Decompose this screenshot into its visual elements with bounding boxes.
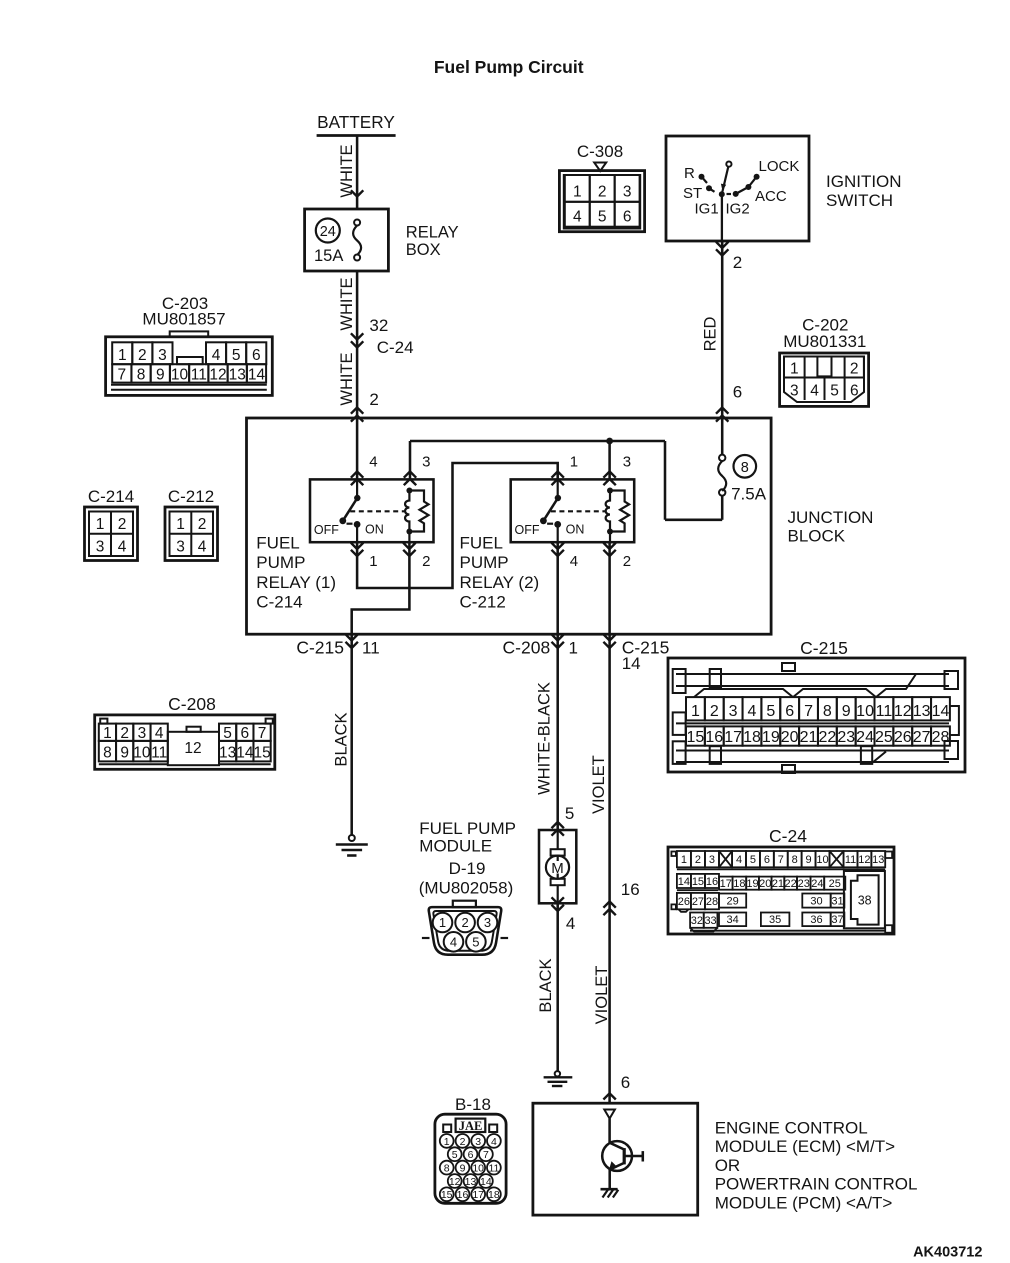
svg-text:3: 3: [422, 454, 430, 471]
svg-text:25: 25: [875, 729, 893, 746]
svg-text:IG1: IG1: [695, 201, 719, 218]
svg-text:14: 14: [622, 654, 641, 673]
svg-text:15A: 15A: [314, 247, 343, 265]
svg-text:12: 12: [858, 854, 870, 866]
svg-text:OR: OR: [715, 1156, 741, 1175]
svg-text:ACC: ACC: [755, 188, 787, 205]
svg-text:14: 14: [248, 366, 266, 383]
svg-text:2: 2: [695, 854, 701, 866]
svg-text:14: 14: [236, 745, 254, 762]
svg-text:C-212: C-212: [168, 487, 214, 506]
svg-text:2: 2: [120, 725, 129, 742]
svg-text:11: 11: [845, 854, 856, 866]
svg-text:11: 11: [191, 366, 207, 383]
svg-text:SWITCH: SWITCH: [826, 191, 893, 210]
svg-text:5: 5: [232, 347, 241, 364]
svg-text:2: 2: [138, 347, 147, 364]
svg-text:4: 4: [570, 553, 578, 570]
svg-text:3: 3: [475, 1136, 481, 1148]
svg-text:8: 8: [137, 366, 146, 383]
svg-text:RELAY: RELAY: [406, 223, 459, 241]
svg-text:26: 26: [894, 729, 912, 746]
svg-text:JAE: JAE: [459, 1119, 483, 1133]
svg-text:3: 3: [138, 725, 147, 742]
svg-text:2: 2: [733, 253, 742, 272]
svg-text:10: 10: [856, 703, 874, 720]
svg-text:14: 14: [480, 1176, 492, 1188]
svg-text:25: 25: [829, 878, 841, 890]
svg-text:23: 23: [837, 729, 855, 746]
svg-text:31: 31: [831, 895, 843, 907]
svg-text:8: 8: [792, 854, 798, 866]
svg-text:C-212: C-212: [460, 592, 506, 611]
svg-text:BLACK: BLACK: [537, 958, 555, 1012]
svg-text:32: 32: [691, 915, 703, 927]
svg-text:RED: RED: [702, 317, 720, 352]
svg-text:7: 7: [258, 725, 267, 742]
svg-text:18: 18: [733, 878, 745, 890]
svg-text:6: 6: [241, 725, 250, 742]
svg-text:16: 16: [621, 880, 640, 899]
svg-text:16: 16: [457, 1189, 469, 1201]
svg-text:(MU802058): (MU802058): [419, 879, 514, 898]
svg-text:3: 3: [96, 539, 105, 556]
svg-text:27: 27: [913, 729, 931, 746]
svg-text:7.5A: 7.5A: [731, 485, 767, 504]
svg-text:OFF: OFF: [515, 523, 540, 537]
svg-text:12: 12: [894, 703, 912, 720]
svg-text:22: 22: [818, 729, 836, 746]
svg-text:2: 2: [461, 915, 468, 930]
svg-text:15: 15: [441, 1189, 453, 1201]
svg-text:OFF: OFF: [314, 523, 339, 537]
svg-text:1: 1: [681, 854, 687, 866]
svg-text:4: 4: [810, 383, 819, 400]
svg-text:11: 11: [151, 745, 167, 762]
svg-text:10: 10: [171, 366, 189, 383]
svg-text:3: 3: [709, 854, 715, 866]
svg-text:4: 4: [491, 1136, 497, 1148]
svg-text:33: 33: [704, 915, 716, 927]
svg-text:3: 3: [623, 184, 632, 201]
svg-text:13: 13: [219, 745, 236, 762]
svg-text:2: 2: [422, 553, 430, 570]
svg-text:15: 15: [687, 729, 705, 746]
svg-text:12: 12: [209, 366, 226, 383]
svg-text:1: 1: [570, 454, 578, 471]
svg-text:5: 5: [598, 209, 607, 226]
svg-text:5: 5: [830, 383, 839, 400]
svg-text:1: 1: [439, 915, 446, 930]
svg-text:2: 2: [710, 703, 719, 720]
svg-text:12: 12: [184, 740, 201, 757]
svg-text:WHITE: WHITE: [338, 352, 356, 405]
svg-text:32: 32: [369, 316, 388, 335]
svg-text:MU801857: MU801857: [142, 310, 225, 329]
svg-text:17: 17: [724, 729, 742, 746]
svg-text:VIOLET: VIOLET: [593, 966, 611, 1025]
svg-text:AK403712: AK403712: [913, 1245, 982, 1261]
svg-text:23: 23: [798, 878, 810, 890]
svg-text:9: 9: [460, 1163, 466, 1175]
svg-text:9: 9: [842, 703, 851, 720]
svg-text:1: 1: [569, 639, 578, 658]
svg-text:26: 26: [678, 896, 690, 908]
svg-text:7: 7: [483, 1149, 489, 1161]
svg-text:6: 6: [733, 383, 742, 402]
svg-text:C-208: C-208: [503, 638, 551, 658]
svg-text:13: 13: [465, 1176, 477, 1188]
svg-text:MODULE (PCM) <A/T>: MODULE (PCM) <A/T>: [715, 1193, 893, 1212]
svg-text:27: 27: [692, 896, 704, 908]
svg-text:BATTERY: BATTERY: [317, 112, 395, 132]
svg-text:B-18: B-18: [455, 1095, 491, 1114]
svg-text:20: 20: [781, 729, 799, 746]
svg-text:7: 7: [804, 703, 813, 720]
svg-text:WHITE-BLACK: WHITE-BLACK: [536, 682, 554, 795]
svg-text:IGNITION: IGNITION: [826, 172, 902, 191]
svg-text:C-24: C-24: [769, 826, 807, 846]
svg-text:R: R: [684, 165, 695, 182]
svg-text:18: 18: [743, 729, 761, 746]
svg-text:4: 4: [736, 854, 742, 866]
svg-text:4: 4: [573, 209, 582, 226]
svg-text:9: 9: [156, 366, 165, 383]
svg-text:C-215: C-215: [296, 638, 344, 658]
svg-text:1: 1: [103, 725, 112, 742]
svg-text:15: 15: [253, 745, 270, 762]
svg-text:1: 1: [444, 1136, 450, 1148]
svg-text:2: 2: [369, 390, 378, 409]
svg-text:4: 4: [155, 725, 164, 742]
svg-text:15: 15: [692, 876, 704, 888]
svg-text:19: 19: [746, 878, 758, 890]
svg-text:3: 3: [484, 915, 491, 930]
svg-text:28: 28: [932, 729, 950, 746]
svg-text:7: 7: [118, 366, 127, 383]
svg-text:5: 5: [766, 703, 775, 720]
svg-text:6: 6: [621, 1073, 630, 1092]
svg-text:4: 4: [198, 539, 207, 556]
svg-text:PUMP: PUMP: [460, 553, 509, 572]
svg-text:1: 1: [573, 184, 582, 201]
svg-text:34: 34: [726, 914, 738, 926]
svg-text:C-215: C-215: [800, 638, 848, 658]
svg-text:RELAY (1): RELAY (1): [256, 573, 336, 592]
svg-text:1: 1: [369, 553, 377, 570]
svg-text:IG2: IG2: [726, 201, 750, 218]
svg-text:19: 19: [762, 729, 780, 746]
svg-text:MODULE: MODULE: [419, 836, 492, 855]
svg-text:C-208: C-208: [168, 694, 216, 714]
svg-text:11: 11: [876, 703, 893, 720]
svg-text:JUNCTION: JUNCTION: [788, 508, 874, 527]
svg-text:ST: ST: [683, 185, 702, 202]
svg-text:2: 2: [198, 516, 207, 533]
svg-text:C-308: C-308: [577, 142, 623, 161]
svg-text:16: 16: [706, 876, 718, 888]
svg-text:8: 8: [103, 745, 112, 762]
svg-text:16: 16: [705, 729, 723, 746]
svg-text:FUEL: FUEL: [256, 534, 299, 553]
svg-text:18: 18: [488, 1189, 500, 1201]
svg-text:2: 2: [850, 361, 859, 378]
svg-text:BOX: BOX: [406, 241, 441, 259]
svg-text:ON: ON: [566, 523, 585, 537]
svg-text:LOCK: LOCK: [759, 158, 800, 175]
svg-text:5: 5: [452, 1149, 458, 1161]
svg-text:BLACK: BLACK: [333, 712, 351, 766]
svg-text:8: 8: [741, 460, 749, 476]
svg-text:6: 6: [623, 209, 632, 226]
svg-text:4: 4: [748, 703, 757, 720]
svg-text:10: 10: [472, 1163, 484, 1175]
svg-text:35: 35: [769, 914, 781, 926]
svg-text:21: 21: [772, 878, 784, 890]
svg-text:D-19: D-19: [449, 859, 486, 878]
svg-text:3: 3: [623, 454, 631, 471]
svg-text:1: 1: [96, 516, 105, 533]
svg-text:20: 20: [759, 878, 771, 890]
svg-text:1: 1: [691, 703, 700, 720]
svg-text:9: 9: [120, 745, 129, 762]
svg-text:C-214: C-214: [256, 592, 302, 611]
svg-text:14: 14: [932, 703, 950, 720]
svg-text:29: 29: [726, 895, 738, 907]
svg-text:MU801331: MU801331: [783, 332, 866, 351]
svg-text:8: 8: [444, 1163, 450, 1175]
svg-text:5: 5: [750, 854, 756, 866]
svg-text:17: 17: [720, 878, 732, 890]
svg-text:24: 24: [856, 729, 874, 746]
svg-text:5: 5: [565, 804, 574, 823]
svg-text:21: 21: [800, 729, 818, 746]
svg-text:10: 10: [133, 745, 151, 762]
svg-text:24: 24: [320, 224, 336, 240]
svg-text:11: 11: [488, 1163, 499, 1175]
svg-text:6: 6: [252, 347, 261, 364]
svg-text:10: 10: [816, 854, 828, 866]
svg-text:WHITE: WHITE: [338, 144, 356, 197]
svg-text:24: 24: [811, 878, 823, 890]
svg-text:9: 9: [806, 854, 812, 866]
svg-text:38: 38: [858, 894, 872, 908]
svg-text:4: 4: [369, 454, 377, 471]
svg-text:4: 4: [212, 347, 221, 364]
svg-text:4: 4: [118, 539, 127, 556]
svg-text:28: 28: [706, 896, 718, 908]
svg-text:36: 36: [810, 914, 822, 926]
svg-text:PUMP: PUMP: [256, 553, 305, 572]
svg-text:3: 3: [790, 383, 799, 400]
svg-text:BLOCK: BLOCK: [788, 527, 846, 546]
svg-text:11: 11: [362, 639, 380, 658]
svg-text:ENGINE CONTROL: ENGINE CONTROL: [715, 1119, 868, 1138]
svg-text:1: 1: [176, 516, 185, 533]
svg-text:FUEL: FUEL: [460, 534, 503, 553]
svg-text:5: 5: [223, 725, 232, 742]
svg-text:37: 37: [831, 914, 843, 926]
svg-text:FUEL PUMP: FUEL PUMP: [419, 819, 516, 838]
svg-text:6: 6: [468, 1149, 474, 1161]
svg-text:6: 6: [850, 383, 859, 400]
svg-text:VIOLET: VIOLET: [590, 755, 608, 814]
svg-text:ON: ON: [365, 523, 384, 537]
svg-text:17: 17: [472, 1189, 484, 1201]
svg-text:RELAY (2): RELAY (2): [460, 573, 540, 592]
svg-text:6: 6: [785, 703, 794, 720]
svg-text:22: 22: [785, 878, 797, 890]
svg-text:30: 30: [810, 895, 822, 907]
svg-text:5: 5: [472, 935, 479, 950]
svg-text:C-24: C-24: [377, 338, 414, 357]
svg-text:1: 1: [118, 347, 127, 364]
svg-text:MODULE (ECM) <M/T>: MODULE (ECM) <M/T>: [715, 1137, 895, 1156]
svg-text:2: 2: [118, 516, 127, 533]
svg-text:13: 13: [913, 703, 931, 720]
svg-text:12: 12: [449, 1176, 461, 1188]
svg-text:4: 4: [566, 914, 575, 933]
svg-text:14: 14: [678, 876, 690, 888]
svg-text:8: 8: [823, 703, 832, 720]
svg-text:WHITE: WHITE: [338, 277, 356, 330]
svg-text:7: 7: [778, 854, 784, 866]
svg-text:C-214: C-214: [88, 487, 134, 506]
svg-text:6: 6: [764, 854, 770, 866]
svg-text:2: 2: [460, 1136, 466, 1148]
svg-text:2: 2: [623, 553, 631, 570]
svg-text:3: 3: [176, 539, 185, 556]
svg-text:13: 13: [229, 366, 246, 383]
svg-text:Fuel Pump Circuit: Fuel Pump Circuit: [434, 57, 584, 77]
svg-text:POWERTRAIN CONTROL: POWERTRAIN CONTROL: [715, 1175, 918, 1194]
svg-text:4: 4: [450, 935, 457, 950]
svg-text:2: 2: [598, 184, 607, 201]
svg-text:3: 3: [729, 703, 738, 720]
svg-text:1: 1: [790, 361, 799, 378]
svg-text:13: 13: [872, 854, 884, 866]
svg-text:3: 3: [158, 347, 167, 364]
